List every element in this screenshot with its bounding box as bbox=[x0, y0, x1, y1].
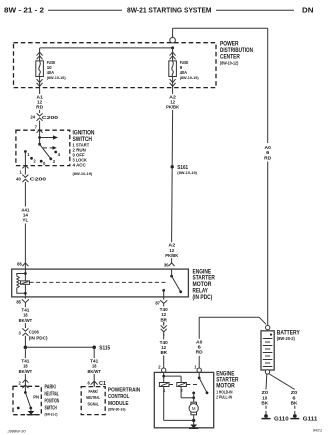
starter contact switch bbox=[198, 372, 209, 394]
starter pin 1 terminal bbox=[194, 365, 201, 373]
svg-text:POWERTRAIN: POWERTRAIN bbox=[108, 387, 140, 393]
svg-text:C106: C106 bbox=[29, 329, 39, 335]
svg-text:G111: G111 bbox=[303, 416, 318, 422]
wire Z0 to G110 bbox=[265, 374, 268, 414]
ground G111 bbox=[290, 414, 317, 422]
wire label Z0 6 BK bbox=[289, 390, 300, 406]
starter pin 2 terminal bbox=[158, 365, 166, 373]
starter ground and motor wiring bbox=[164, 387, 195, 421]
svg-text:RD: RD bbox=[264, 156, 272, 161]
wire T41 right drop bbox=[93, 347, 95, 386]
wire C200 to ignition pin 7 bbox=[35, 121, 43, 133]
wire T41 left drop bbox=[24, 347, 26, 386]
powertrain control module label bbox=[108, 387, 140, 411]
svg-text:M: M bbox=[192, 406, 196, 411]
svg-text:POSITION: POSITION bbox=[45, 399, 60, 405]
svg-text:2 PULL-IN: 2 PULL-IN bbox=[216, 395, 232, 400]
battery - terminal bbox=[265, 370, 269, 374]
svg-text:85: 85 bbox=[16, 299, 21, 304]
svg-text:NEUTRAL: NEUTRAL bbox=[45, 392, 59, 398]
svg-text:C200: C200 bbox=[30, 176, 47, 182]
svg-text:BR: BR bbox=[160, 350, 167, 355]
powertrain control module box bbox=[81, 387, 105, 415]
wire label T41 18 BK/WT upper bbox=[18, 307, 33, 323]
svg-text:NEUTRAL: NEUTRAL bbox=[86, 395, 100, 400]
powertrain control module internal label bbox=[86, 389, 100, 407]
svg-text:4 ACC: 4 ACC bbox=[73, 163, 87, 168]
svg-text:8W - 21 - 2: 8W - 21 - 2 bbox=[4, 7, 44, 14]
svg-text:A0: A0 bbox=[265, 145, 272, 150]
relay pin 86 entry bbox=[17, 262, 28, 267]
wire T41 relay 85 to C106 bbox=[24, 306, 26, 329]
wire C106 to junction bbox=[24, 336, 26, 348]
svg-text:CENTER: CENTER bbox=[220, 54, 240, 61]
svg-text:RD: RD bbox=[196, 350, 204, 355]
svg-text:86: 86 bbox=[17, 262, 22, 267]
svg-text:30: 30 bbox=[164, 263, 169, 268]
connector C106 pin 3 bbox=[18, 328, 47, 341]
wire A0 battery to starter 1 bbox=[199, 317, 266, 368]
junction node dot bbox=[24, 346, 28, 350]
svg-text:(8W-10-19): (8W-10-19) bbox=[180, 75, 200, 80]
svg-text:8421: 8421 bbox=[313, 428, 322, 432]
svg-text:87: 87 bbox=[155, 301, 160, 306]
battery label bbox=[277, 329, 301, 340]
wire label Z0 10 BK bbox=[260, 390, 271, 406]
svg-text:(8W-30-16): (8W-30-16) bbox=[108, 407, 126, 412]
PNP pin 2 entry bbox=[18, 380, 28, 388]
power distribution center box bbox=[14, 43, 217, 88]
engine starter motor box bbox=[154, 372, 213, 427]
wire label A41 14 YL bbox=[20, 207, 31, 224]
svg-text:YL: YL bbox=[22, 218, 28, 223]
svg-text:PN: PN bbox=[33, 394, 39, 399]
svg-text:CONTROL: CONTROL bbox=[108, 394, 130, 400]
wire label A0 6 RD (feed) bbox=[262, 144, 273, 161]
relay label bbox=[193, 268, 216, 301]
svg-text:PK/BK: PK/BK bbox=[166, 105, 180, 110]
svg-text:(IN PDC): (IN PDC) bbox=[193, 294, 213, 301]
connector C200 pin 24 bbox=[30, 113, 58, 121]
wire Z0 to G111 bbox=[269, 374, 295, 415]
header title left bbox=[4, 7, 44, 14]
inline connector on T40 bbox=[158, 322, 169, 336]
ignition switch internals bbox=[24, 130, 61, 166]
svg-text:(8W-31-2): (8W-31-2) bbox=[45, 412, 59, 417]
fuse F10 bbox=[36, 48, 44, 88]
wire label A1 12 RD bbox=[34, 94, 45, 110]
relay contact bbox=[162, 269, 182, 297]
svg-text:DN: DN bbox=[302, 7, 314, 14]
svg-text:24: 24 bbox=[30, 115, 35, 120]
relay coil bbox=[17, 269, 30, 297]
header title DN bbox=[302, 7, 314, 14]
svg-text:BK: BK bbox=[291, 400, 299, 405]
junction dot fuse 9 top bbox=[171, 46, 174, 49]
ignition switch label bbox=[73, 129, 95, 176]
wire label T41 18 BK/WT left bbox=[18, 358, 33, 374]
svg-text:(IN PDC): (IN PDC) bbox=[29, 335, 48, 341]
wire A2 fuse9 to relay 30 bbox=[172, 88, 173, 263]
svg-text:G110: G110 bbox=[274, 416, 289, 422]
svg-text:8W-21 STARTING SYSTEM: 8W-21 STARTING SYSTEM bbox=[127, 7, 212, 14]
solenoid mechanical link dashed bbox=[169, 384, 198, 386]
header rule right bbox=[216, 9, 294, 11]
park/neutral position switch box bbox=[13, 386, 41, 414]
svg-text:C1: C1 bbox=[99, 381, 106, 387]
wire label T41 18 BK/WT right bbox=[87, 358, 102, 374]
footer plate right bbox=[313, 428, 322, 432]
wire junction to S115 bbox=[25, 346, 94, 348]
starter pull-in coil 2 bbox=[177, 383, 187, 394]
fuse F9 value label bbox=[180, 60, 200, 80]
header title center bbox=[127, 7, 212, 14]
battery + terminal bbox=[266, 325, 270, 329]
wire label T40 12 BR upper bbox=[157, 307, 172, 323]
connector C200 pin 40 bbox=[16, 175, 46, 183]
connector circle PDC B+ feed bbox=[170, 37, 176, 43]
starter motor M bbox=[189, 402, 198, 428]
battery bbox=[261, 331, 274, 370]
fuse F9 bbox=[169, 48, 177, 88]
wire A1 fuse10 to C200 bbox=[39, 88, 41, 113]
wire A41 C200 to relay 86 bbox=[24, 182, 26, 269]
splice S115 bbox=[92, 345, 110, 351]
wire label A0 6 RD starter bbox=[194, 339, 205, 356]
svg-text:40: 40 bbox=[16, 177, 21, 182]
ignition switch box bbox=[16, 130, 70, 165]
svg-text:BK/WT: BK/WT bbox=[19, 369, 33, 374]
svg-text:PARK/: PARK/ bbox=[45, 385, 57, 391]
fuse F10 value label bbox=[47, 60, 67, 80]
wire battery feed top run bbox=[173, 28, 268, 325]
starter solenoid feed wiring bbox=[162, 372, 181, 382]
svg-text:S115: S115 bbox=[99, 345, 110, 351]
svg-text:C200: C200 bbox=[42, 115, 59, 121]
wire ignition pin 1 exit bbox=[19, 165, 28, 174]
svg-text:J988W-30: J988W-30 bbox=[6, 429, 25, 433]
svg-text:SWITCH: SWITCH bbox=[45, 405, 57, 411]
starter case ground bbox=[189, 425, 198, 429]
svg-text:SIGNAL: SIGNAL bbox=[88, 401, 100, 406]
svg-text:BK/WT: BK/WT bbox=[87, 369, 101, 374]
relay pin 87 eyelet bbox=[155, 297, 167, 306]
park/neutral position switch internals bbox=[17, 386, 39, 414]
header rule left bbox=[48, 9, 122, 11]
svg-text:BR: BR bbox=[160, 317, 167, 322]
relay mechanical link dashed bbox=[30, 281, 168, 283]
wire PDC internal bus bbox=[40, 47, 173, 49]
svg-text:(8W-10-19): (8W-10-19) bbox=[47, 75, 67, 80]
wire T40 relay 87 to starter 2 bbox=[163, 306, 165, 368]
wire label A2 12 PK/BK upper bbox=[165, 94, 180, 110]
wire label A2 12 PK/BK lower bbox=[165, 242, 180, 258]
starter hold-in coil 1 bbox=[159, 383, 169, 394]
svg-text:(8W-20-2): (8W-20-2) bbox=[277, 336, 296, 341]
svg-text:PARK/: PARK/ bbox=[89, 389, 99, 394]
footer plate left bbox=[6, 429, 25, 433]
relay pin 30 entry bbox=[164, 263, 175, 268]
ground G110 bbox=[262, 414, 289, 422]
engine starter motor label bbox=[216, 370, 239, 399]
svg-text:PK/BK: PK/BK bbox=[165, 253, 179, 258]
svg-text:(8W-10-19): (8W-10-19) bbox=[73, 171, 93, 176]
svg-text:RD: RD bbox=[36, 105, 44, 110]
relay pin 85 eyelet bbox=[16, 297, 29, 306]
PCM pin 6 entry C1 bbox=[87, 380, 106, 387]
power distribution center label bbox=[220, 40, 253, 65]
svg-text:(8W-10-19): (8W-10-19) bbox=[177, 170, 197, 175]
engine starter motor relay box bbox=[12, 269, 189, 297]
svg-text:BK/WT: BK/WT bbox=[19, 318, 33, 323]
wire label T40 12 BR lower bbox=[157, 339, 172, 355]
svg-text:BK: BK bbox=[261, 400, 269, 405]
splice S161 bbox=[171, 165, 198, 175]
svg-text:(8W-10-12): (8W-10-12) bbox=[220, 61, 239, 66]
park/neutral position switch label bbox=[45, 385, 60, 417]
